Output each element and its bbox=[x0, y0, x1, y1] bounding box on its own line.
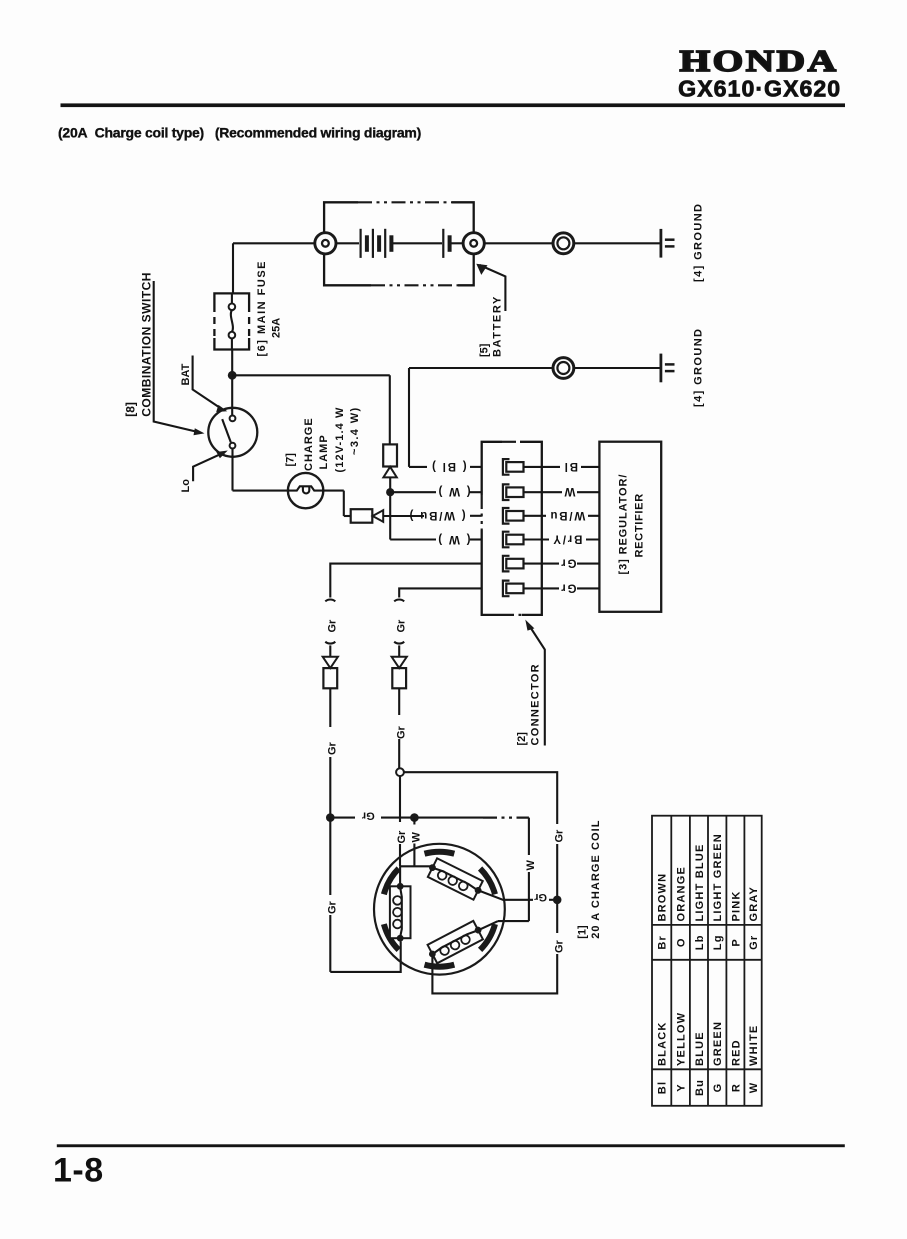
svg-text:RECTIFIER: RECTIFIER bbox=[634, 493, 646, 557]
svg-text:Gr: Gr bbox=[533, 891, 547, 903]
svg-text:BLACK: BLACK bbox=[657, 1022, 669, 1067]
svg-text:[2]: [2] bbox=[516, 732, 528, 746]
svg-text:GRAY: GRAY bbox=[748, 886, 760, 922]
svg-text:Gr: Gr bbox=[559, 557, 576, 569]
svg-text:Bl: Bl bbox=[563, 460, 578, 472]
svg-text:COMBINATION SWITCH: COMBINATION SWITCH bbox=[140, 272, 154, 417]
svg-text:Gr: Gr bbox=[748, 935, 760, 950]
svg-text:Gr: Gr bbox=[559, 581, 576, 593]
svg-text:[4] GROUND: [4] GROUND bbox=[693, 203, 705, 282]
svg-text:Gr: Gr bbox=[326, 619, 338, 633]
svg-text:Br: Br bbox=[657, 935, 669, 950]
svg-text:25A: 25A bbox=[271, 318, 283, 338]
svg-text:Lo: Lo bbox=[180, 479, 192, 493]
svg-text:PINK: PINK bbox=[730, 890, 742, 921]
svg-text:[5]: [5] bbox=[479, 343, 491, 357]
svg-text:GX610·GX620: GX610·GX620 bbox=[678, 76, 841, 102]
svg-text:Lb: Lb bbox=[694, 934, 706, 950]
svg-text:Bu: Bu bbox=[694, 1079, 706, 1096]
svg-text:W: W bbox=[748, 1082, 760, 1094]
svg-text:CONNECTOR: CONNECTOR bbox=[529, 663, 541, 745]
svg-text:CHARGE: CHARGE bbox=[303, 417, 315, 471]
svg-text:(12V-1.4 W: (12V-1.4 W bbox=[334, 406, 346, 472]
svg-text:[8]: [8] bbox=[124, 402, 138, 417]
svg-text:BATTERY: BATTERY bbox=[492, 295, 504, 357]
svg-text:RED: RED bbox=[730, 1039, 742, 1066]
svg-text:1-8: 1-8 bbox=[53, 1152, 104, 1190]
svg-text:Gr: Gr bbox=[396, 830, 408, 844]
svg-text:GREEN: GREEN bbox=[712, 1021, 724, 1066]
svg-text:~3.4 W): ~3.4 W) bbox=[349, 406, 361, 455]
svg-text:Bl: Bl bbox=[657, 1081, 669, 1094]
svg-text:Y: Y bbox=[676, 1083, 688, 1092]
svg-text:BAT: BAT bbox=[180, 363, 192, 385]
svg-text:HONDA: HONDA bbox=[680, 43, 839, 78]
svg-text:[4] GROUND: [4] GROUND bbox=[693, 328, 705, 407]
svg-text:[6] MAIN FUSE: [6] MAIN FUSE bbox=[256, 260, 268, 357]
svg-text:Gr: Gr bbox=[553, 939, 565, 953]
svg-text:Br/Y: Br/Y bbox=[551, 533, 582, 545]
svg-text:(20A Charge coil type) (Rec: (20A Charge coil type) (Recommended wiri… bbox=[58, 125, 421, 141]
svg-text:Gr: Gr bbox=[396, 725, 408, 739]
svg-text:WHITE: WHITE bbox=[748, 1025, 760, 1066]
svg-text:Gr: Gr bbox=[326, 741, 338, 755]
svg-text:Gr: Gr bbox=[326, 900, 338, 914]
svg-text:W/Bu: W/Bu bbox=[549, 509, 586, 521]
svg-text:BROWN: BROWN bbox=[657, 873, 669, 922]
svg-text:Lg: Lg bbox=[712, 934, 724, 950]
svg-text:YELLOW: YELLOW bbox=[676, 1012, 688, 1066]
svg-text:[7]: [7] bbox=[285, 453, 297, 467]
svg-text:O: O bbox=[676, 937, 688, 947]
svg-text:LAMP: LAMP bbox=[318, 434, 330, 469]
svg-text:G: G bbox=[712, 1083, 724, 1093]
svg-text:P: P bbox=[730, 938, 742, 947]
svg-text:W: W bbox=[563, 485, 576, 497]
svg-text:R: R bbox=[730, 1083, 742, 1092]
svg-text:20 A CHARGE COIL: 20 A CHARGE COIL bbox=[590, 820, 602, 939]
svg-text:[1]: [1] bbox=[577, 925, 589, 939]
svg-text:( W ): ( W ) bbox=[437, 533, 471, 545]
svg-text:W: W bbox=[525, 860, 537, 871]
svg-text:BLUE: BLUE bbox=[694, 1031, 706, 1066]
svg-text:LIGHT BLUE: LIGHT BLUE bbox=[694, 844, 706, 922]
svg-text:[3] REGULATOR/: [3] REGULATOR/ bbox=[618, 474, 630, 575]
svg-text:( W/Bu ): ( W/Bu ) bbox=[408, 509, 466, 521]
svg-text:LIGHT GREEN: LIGHT GREEN bbox=[712, 833, 724, 921]
svg-text:( W ): ( W ) bbox=[437, 485, 471, 497]
svg-text:Gr: Gr bbox=[361, 810, 375, 822]
svg-text:( Bl ): ( Bl ) bbox=[430, 460, 466, 472]
svg-text:ORANGE: ORANGE bbox=[676, 866, 688, 921]
svg-text:Gr: Gr bbox=[553, 829, 565, 843]
svg-text:Gr: Gr bbox=[395, 619, 407, 633]
svg-text:W: W bbox=[411, 832, 423, 843]
